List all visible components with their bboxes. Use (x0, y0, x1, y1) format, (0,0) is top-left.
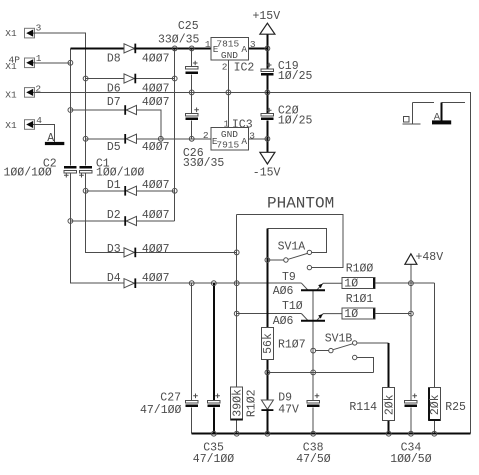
svg-text:R1Ø2: R1Ø2 (245, 389, 258, 417)
svg-text:A: A (47, 132, 54, 145)
svg-text:D9: D9 (278, 391, 292, 404)
svg-text:IC2: IC2 (234, 61, 255, 74)
svg-text:1ØØ/1ØØ: 1ØØ/1ØØ (4, 167, 52, 180)
svg-text:3: 3 (249, 130, 255, 141)
svg-text:A: A (241, 136, 247, 147)
svg-text:AØ6: AØ6 (273, 315, 294, 328)
svg-text:SV1A: SV1A (278, 240, 306, 253)
svg-text:D5: D5 (107, 141, 121, 154)
svg-text:33Ø/35: 33Ø/35 (158, 34, 200, 47)
svg-text:4ØØ7: 4ØØ7 (142, 209, 170, 222)
svg-text:4ØØ7: 4ØØ7 (142, 141, 170, 154)
svg-text:+48V: +48V (416, 251, 444, 264)
svg-text:PHANTOM: PHANTOM (267, 194, 334, 212)
svg-text:D4: D4 (107, 272, 121, 285)
svg-text:GND: GND (221, 50, 238, 61)
svg-text:+15V: +15V (253, 10, 281, 23)
svg-text:4: 4 (36, 115, 42, 126)
svg-text:AØ6: AØ6 (273, 285, 294, 298)
svg-text:R25: R25 (445, 401, 466, 414)
svg-text:A: A (434, 111, 441, 123)
svg-text:4ØØ7: 4ØØ7 (142, 83, 170, 96)
svg-text:D1: D1 (107, 179, 121, 192)
svg-text:1Ø: 1Ø (344, 278, 358, 291)
svg-text:D2: D2 (107, 209, 121, 222)
svg-text:4ØØ7: 4ØØ7 (142, 52, 170, 65)
svg-text:X1: X1 (5, 28, 17, 39)
svg-text:SV1B: SV1B (325, 332, 353, 345)
svg-text:X1: X1 (5, 89, 17, 100)
svg-text:R114: R114 (349, 401, 377, 414)
svg-text:47V: 47V (278, 404, 299, 417)
svg-text:1ØØ/5Ø: 1ØØ/5Ø (390, 453, 432, 466)
svg-text:2: 2 (203, 130, 209, 141)
svg-text:D6: D6 (107, 83, 121, 96)
svg-text:3: 3 (250, 39, 256, 50)
svg-text:1Ø: 1Ø (344, 308, 358, 321)
svg-text:-15V: -15V (253, 166, 281, 179)
svg-text:GND: GND (221, 129, 238, 140)
svg-text:E: E (213, 44, 219, 55)
svg-text:4ØØ7: 4ØØ7 (142, 179, 170, 192)
svg-text:1Ø/25: 1Ø/25 (278, 114, 313, 127)
svg-text:R1Ø7: R1Ø7 (278, 339, 306, 352)
svg-text:47/1ØØ: 47/1ØØ (193, 453, 235, 466)
svg-text:33Ø/35: 33Ø/35 (183, 157, 225, 170)
svg-text:3: 3 (36, 23, 42, 34)
svg-text:C27: C27 (160, 392, 181, 405)
svg-text:1Ø/25: 1Ø/25 (278, 70, 313, 83)
svg-text:7915: 7915 (216, 139, 239, 150)
svg-text:D7: D7 (107, 96, 121, 109)
svg-text:T1Ø: T1Ø (282, 300, 303, 313)
svg-text:4ØØ7: 4ØØ7 (142, 96, 170, 109)
svg-text:2: 2 (35, 84, 41, 95)
svg-text:R1ØØ: R1ØØ (346, 262, 374, 275)
svg-text:D3: D3 (107, 243, 121, 256)
svg-text:1ØØ/1ØØ: 1ØØ/1ØØ (96, 167, 144, 180)
svg-text:E: E (212, 136, 218, 147)
svg-text:T9: T9 (282, 271, 296, 284)
svg-text:2Øk: 2Øk (383, 394, 396, 415)
svg-text:39Øk: 39Øk (231, 389, 244, 417)
svg-text:4ØØ7: 4ØØ7 (142, 272, 170, 285)
svg-text:1: 1 (36, 53, 42, 64)
svg-text:47/5Ø: 47/5Ø (296, 453, 331, 466)
svg-text:1: 1 (205, 39, 211, 50)
svg-text:X1: X1 (5, 61, 17, 72)
svg-text:7815: 7815 (216, 38, 239, 49)
svg-text:56k: 56k (262, 333, 275, 354)
svg-text:X1: X1 (5, 120, 17, 131)
svg-text:1: 1 (224, 118, 230, 129)
svg-text:C25: C25 (178, 20, 199, 33)
svg-text:A: A (241, 44, 247, 55)
svg-text:R1Ø1: R1Ø1 (346, 293, 374, 306)
svg-text:47/1ØØ: 47/1ØØ (140, 404, 182, 417)
svg-text:4ØØ7: 4ØØ7 (142, 243, 170, 256)
svg-text:2Øk: 2Øk (429, 394, 442, 415)
svg-text:D8: D8 (107, 52, 121, 65)
svg-text:2: 2 (222, 62, 228, 73)
